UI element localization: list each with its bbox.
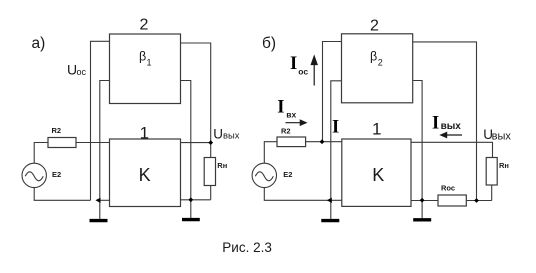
svg-text:R2: R2 (52, 126, 62, 135)
svg-text:2: 2 (378, 58, 383, 68)
svg-text:β: β (370, 50, 377, 64)
svg-text:ос: ос (77, 67, 87, 77)
svg-text:1: 1 (147, 58, 152, 68)
svg-text:2: 2 (140, 17, 149, 34)
svg-text:1: 1 (140, 124, 149, 143)
svg-text:1: 1 (372, 120, 381, 139)
svg-text:K: K (372, 165, 384, 185)
svg-text:U: U (213, 127, 223, 142)
svg-text:I: I (290, 54, 297, 74)
svg-text:Rн: Rн (499, 161, 509, 170)
svg-text:вх: вх (286, 109, 296, 119)
svg-text:R2: R2 (281, 127, 291, 136)
svg-text:Rос: Rос (441, 183, 455, 192)
svg-text:I: I (432, 114, 439, 134)
svg-text:K: K (139, 165, 151, 185)
svg-text:ос: ос (298, 67, 308, 77)
svg-text:Rн: Rн (217, 161, 227, 170)
svg-text:а): а) (32, 35, 46, 52)
svg-text:вых: вых (223, 130, 240, 141)
svg-text:2: 2 (370, 17, 379, 34)
svg-text:E2: E2 (52, 170, 61, 179)
svg-text:б): б) (262, 35, 276, 52)
svg-text:β: β (139, 50, 146, 64)
svg-text:Рис. 2.3: Рис. 2.3 (222, 240, 272, 255)
svg-text:I: I (277, 97, 284, 117)
svg-text:вых: вых (492, 130, 512, 142)
svg-text:вых: вых (441, 121, 462, 132)
svg-text:I: I (332, 117, 339, 137)
svg-text:E2: E2 (283, 170, 292, 179)
